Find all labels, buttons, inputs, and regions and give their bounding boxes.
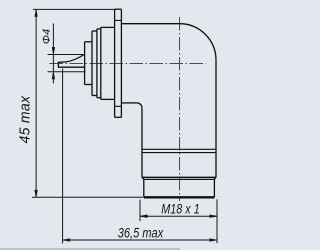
scan edge bottom bbox=[0, 248, 180, 250]
body vertical tube bbox=[142, 60, 216, 177]
dimension Φ4 bbox=[48, 24, 86, 84]
dimension 45 max bbox=[32, 9, 143, 197]
coupling nut bbox=[142, 177, 216, 197]
head staircase bottom bbox=[85, 85, 115, 100]
dimension 36,5 max bbox=[63, 69, 217, 244]
svg-text:M18 x 1: M18 x 1 bbox=[161, 201, 199, 216]
pin taper bbox=[66, 55, 84, 62]
centerline horizontal axis bbox=[50, 62, 207, 64]
mounting flange bbox=[115, 9, 122, 117]
tube end line bbox=[142, 176, 216, 178]
head staircase top bbox=[85, 27, 115, 99]
pin contact tip bbox=[58, 62, 84, 67]
dimension M18 x 1 bbox=[140, 199, 217, 243]
svg-text:36,5 max: 36,5 max bbox=[118, 225, 164, 241]
flange inner lines bbox=[115, 20, 122, 106]
svg-text:Φ4: Φ4 bbox=[41, 29, 53, 44]
centerline vertical axis bbox=[179, 17, 181, 201]
tube joint lines bbox=[142, 149, 216, 152]
body corner arc bbox=[180, 24, 216, 60]
svg-text:45 max: 45 max bbox=[17, 95, 33, 143]
body horizontal arm bbox=[121, 24, 179, 108]
